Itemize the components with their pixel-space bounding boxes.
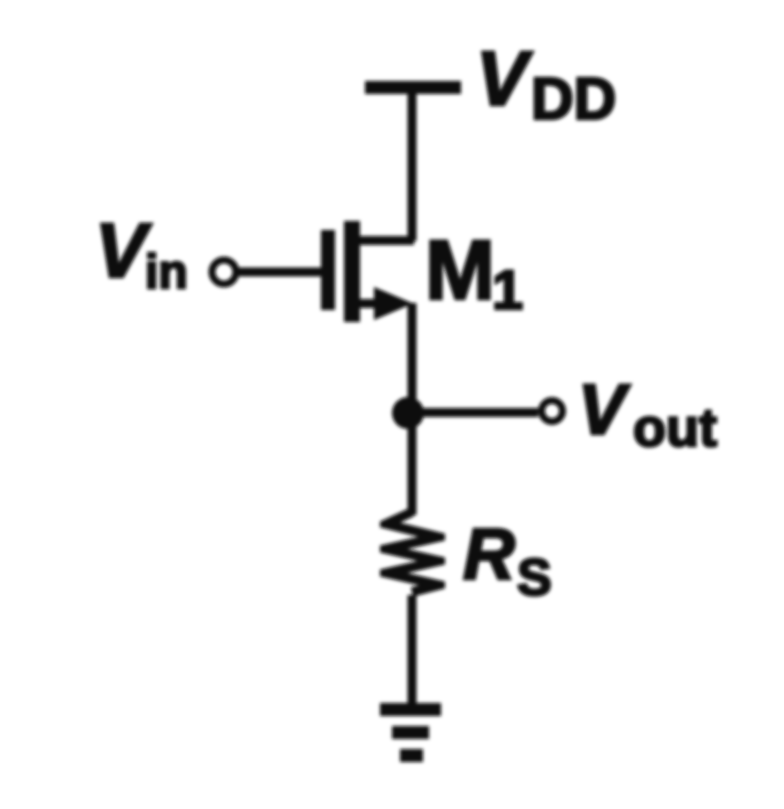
svg-text:R: R xyxy=(463,515,515,595)
wire: VDD bar to drain xyxy=(408,90,417,241)
node Vout output terminal xyxy=(542,401,563,422)
svg-text:S: S xyxy=(517,549,552,607)
ground bar 1 xyxy=(380,703,441,716)
svg-text:1: 1 xyxy=(492,258,523,321)
wire: resistor to ground xyxy=(408,595,417,708)
transistor M1 source arrow xyxy=(374,287,413,320)
ground bar 2 xyxy=(392,726,429,739)
transistor M1 gate bar xyxy=(321,230,335,310)
transistor M1 channel bar xyxy=(344,221,360,322)
resistor RS zigzag xyxy=(380,508,445,597)
svg-text:V: V xyxy=(578,371,631,450)
svg-text:in: in xyxy=(145,246,188,299)
node output junction dot xyxy=(392,397,424,429)
svg-text:V: V xyxy=(95,208,152,294)
svg-text:DD: DD xyxy=(531,66,616,132)
wire: drain lead xyxy=(355,236,414,245)
wire: source lead xyxy=(358,299,385,308)
wire: node to resistor xyxy=(408,413,417,515)
wire: gate lead xyxy=(239,268,322,277)
svg-text:M: M xyxy=(425,223,495,317)
svg-text:out: out xyxy=(633,398,717,458)
power rail VDD bar xyxy=(365,81,461,94)
svg-text:V: V xyxy=(476,36,533,122)
node Vin input terminal xyxy=(212,260,236,284)
ground bar 3 xyxy=(400,749,423,762)
wire: node to output terminal xyxy=(412,408,538,417)
wire: source to output node xyxy=(408,303,417,416)
